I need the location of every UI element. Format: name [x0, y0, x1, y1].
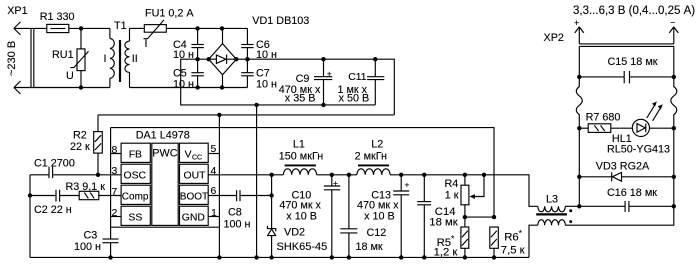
svg-text:1 к: 1 к [445, 189, 459, 201]
capacitor C14 [417, 175, 458, 258]
node [269, 173, 273, 177]
node [269, 193, 273, 197]
wire bottom primary [14, 87, 110, 89]
node pin1 ground [217, 255, 221, 259]
node [220, 85, 224, 89]
svg-text:U: U [66, 70, 74, 82]
wire ground link vertical [256, 105, 258, 258]
squiggle wire left [576, 77, 582, 128]
DA1 inner box GND pin 1 [180, 206, 220, 225]
svg-text:7: 7 [112, 187, 118, 198]
DA1 inner box BOOT pin 6 [180, 185, 217, 204]
svg-text:VD1 DB103: VD1 DB103 [252, 15, 309, 27]
capacitor C2 [30, 190, 79, 216]
capacitor C4 [173, 28, 204, 61]
svg-text:RU1: RU1 [52, 49, 74, 61]
svg-text:SS: SS [128, 213, 142, 224]
node [245, 57, 249, 61]
capacitor C3 [74, 227, 119, 257]
node [330, 173, 334, 177]
svg-text:1,2 к: 1,2 к [434, 247, 458, 259]
capacitor C13 [357, 175, 410, 258]
varistor RU1 [52, 28, 89, 87]
node [79, 26, 83, 30]
transformer T1 [104, 20, 138, 88]
capacitor C11 [338, 59, 385, 105]
DA1 inner box Vcc pin 5 [180, 143, 220, 162]
inductor L2 [355, 139, 390, 175]
node [79, 85, 83, 89]
svg-text:+: + [574, 18, 579, 28]
capacitor C1 [30, 158, 121, 179]
capacitor C15 [579, 56, 674, 83]
svg-text:FB: FB [129, 150, 142, 161]
node minus rail to ground link [254, 103, 258, 107]
svg-text:L1: L1 [293, 139, 305, 151]
wire left rail [29, 175, 31, 258]
DA1 inner box OUT pin 4 [180, 164, 217, 183]
fuse FU1 [144, 7, 195, 50]
resistor R6 [490, 227, 525, 257]
svg-text:DA1 L4978: DA1 L4978 [136, 130, 190, 142]
node [422, 173, 426, 177]
svg-text:2 мкГн: 2 мкГн [355, 151, 387, 163]
svg-text:1: 1 [211, 208, 217, 219]
svg-text:I: I [104, 53, 107, 65]
diode VD2 Schottky [267, 175, 327, 258]
svg-text:C15 18 мк: C15 18 мк [608, 56, 658, 68]
node [672, 175, 676, 179]
node [399, 173, 403, 177]
svg-text:100 н: 100 н [224, 219, 251, 231]
svg-text:8: 8 [112, 145, 118, 156]
wire [166, 27, 247, 29]
node [373, 57, 377, 61]
svg-text:470 мк х: 470 мк х [279, 199, 321, 211]
svg-text:BOOT: BOOT [180, 192, 208, 203]
node [254, 255, 258, 259]
capacitor C5 [173, 59, 204, 90]
svg-text:3,3...6,3 В (0,4...0,25 А): 3,3...6,3 В (0,4...0,25 А) [573, 5, 695, 17]
resistor R1 [40, 11, 75, 33]
DA1 middle box PWC [152, 143, 178, 225]
svg-text:GND: GND [182, 213, 205, 224]
svg-text:OUT: OUT [184, 171, 207, 182]
svg-text:7,5 к: 7,5 к [501, 244, 525, 256]
svg-text:150 мкГн: 150 мкГн [279, 151, 323, 163]
wire output rail [390, 175, 538, 207]
svg-text:V: V [185, 150, 192, 161]
resistor R3 [66, 181, 122, 200]
node [195, 57, 199, 61]
node [269, 255, 273, 259]
node [463, 215, 467, 219]
choke L3 [529, 194, 674, 258]
node [347, 255, 351, 259]
svg-text:FU1 0,2 А: FU1 0,2 А [145, 7, 194, 19]
svg-text:RL50-YG413: RL50-YG413 [607, 144, 670, 156]
resistor R7 [579, 112, 620, 133]
svg-text:C2 22 н: C2 22 н [34, 204, 72, 216]
node [463, 255, 467, 259]
wire minus from bridge left vertex [181, 59, 376, 105]
node [577, 175, 581, 179]
svg-text:VD3 RG2A: VD3 RG2A [596, 161, 650, 173]
svg-text:х 35 В: х 35 В [285, 92, 316, 104]
svg-text:22 к: 22 к [70, 141, 90, 153]
node [399, 255, 403, 259]
DA1 inner box FB pin 8 [112, 143, 151, 162]
node [482, 173, 486, 177]
svg-text:T1: T1 [114, 20, 127, 32]
svg-text:−: − [670, 18, 675, 28]
node [577, 204, 581, 208]
svg-text:х 10 В: х 10 В [286, 211, 317, 223]
svg-text:10 н: 10 н [256, 78, 277, 90]
capacitor C12 [340, 175, 386, 258]
capacitor C9 [279, 59, 333, 105]
squiggle wire right [671, 77, 677, 128]
wire secondary top [130, 27, 145, 29]
node [195, 85, 199, 89]
wire OUT row [208, 174, 283, 176]
capacitor C7 [241, 59, 277, 90]
wire FB trace top [111, 128, 494, 218]
resistor R2 [70, 115, 102, 175]
wire ground rail [30, 256, 529, 258]
svg-text:18 мк: 18 мк [356, 241, 383, 253]
diode VD3 [579, 161, 674, 182]
svg-text:SHK65-45: SHK65-45 [277, 241, 328, 253]
svg-text:C3: C3 [84, 230, 98, 242]
svg-text:C1 2700: C1 2700 [34, 158, 75, 170]
op-amp U1 DA1 L4978 outer box [111, 115, 220, 258]
node [672, 204, 676, 208]
node [108, 255, 112, 259]
svg-text:PWC: PWC [152, 148, 177, 160]
svg-text:100 н: 100 н [74, 241, 101, 253]
svg-text:х 50 В: х 50 В [339, 92, 370, 104]
wire line B Vcc supply [98, 114, 394, 116]
svg-text:R2: R2 [73, 130, 87, 142]
node [422, 255, 426, 259]
svg-text:+: + [405, 180, 410, 190]
svg-text:II: II [132, 53, 138, 65]
node [347, 173, 351, 177]
capacitor C8 [224, 190, 272, 230]
node [577, 75, 581, 79]
svg-text:3: 3 [112, 166, 118, 177]
DA1 inner box OSC pin 3 [112, 164, 151, 183]
node [28, 193, 32, 197]
svg-text:VD2: VD2 [284, 227, 305, 239]
node [492, 255, 496, 259]
svg-text:2: 2 [112, 208, 118, 219]
capacitor C16 [579, 187, 674, 212]
wire BOOT row [208, 195, 236, 197]
svg-text:10 н: 10 н [173, 78, 194, 90]
svg-text:470 мк х: 470 мк х [357, 199, 399, 211]
DA1 inner box SS pin 2 [111, 206, 151, 225]
connector XP1 [7, 5, 34, 94]
svg-text:х 10 В: х 10 В [364, 211, 395, 223]
node [330, 255, 334, 259]
node [577, 126, 581, 130]
node [463, 173, 467, 177]
node OSC junction [96, 173, 100, 177]
svg-text:L2: L2 [371, 139, 383, 151]
svg-text:C12: C12 [367, 227, 387, 239]
inductor L1 [279, 139, 323, 175]
svg-text:L3: L3 [546, 194, 558, 206]
wire divider junction row [465, 216, 494, 218]
resistor R5 [434, 217, 469, 259]
svg-text:C16 18 мк: C16 18 мк [607, 187, 657, 199]
capacitor C6 [241, 28, 277, 61]
wire output left rail [578, 128, 580, 206]
wire plus rail [236, 59, 394, 115]
connector XP2 [544, 18, 679, 77]
svg-text:R7 680: R7 680 [586, 112, 621, 124]
LED HL1 [607, 102, 674, 156]
svg-text:C8: C8 [228, 207, 242, 219]
svg-text:~230 В: ~230 В [6, 41, 18, 76]
svg-text:I: I [145, 38, 148, 50]
node [217, 113, 221, 117]
node [672, 126, 676, 130]
svg-text:4: 4 [211, 166, 217, 177]
node [321, 103, 325, 107]
svg-text:CC: CC [192, 155, 202, 162]
node FB divider junction [492, 215, 496, 219]
wire [69, 27, 110, 29]
capacitor C10 [279, 175, 340, 258]
node [672, 75, 676, 79]
node [220, 26, 224, 30]
svg-text:XP2: XP2 [544, 32, 564, 44]
trimmer R4 [445, 175, 485, 217]
svg-text:18 мк: 18 мк [429, 216, 457, 228]
wire output right rail [673, 128, 675, 206]
svg-text:XP1: XP1 [7, 5, 27, 17]
svg-text:R4: R4 [445, 178, 459, 190]
wire secondary bottom [130, 87, 248, 89]
node [195, 26, 199, 30]
svg-text:OSC: OSC [124, 171, 147, 182]
wire [317, 174, 357, 176]
svg-text:R1 330: R1 330 [40, 11, 75, 23]
DA1 inner box Comp pin 7 [112, 185, 151, 204]
svg-text:Comp: Comp [122, 192, 149, 203]
svg-text:C11: C11 [348, 72, 367, 83]
node [321, 57, 325, 61]
wire top primary [14, 27, 47, 29]
bridge rectifier VD1 [207, 15, 310, 88]
